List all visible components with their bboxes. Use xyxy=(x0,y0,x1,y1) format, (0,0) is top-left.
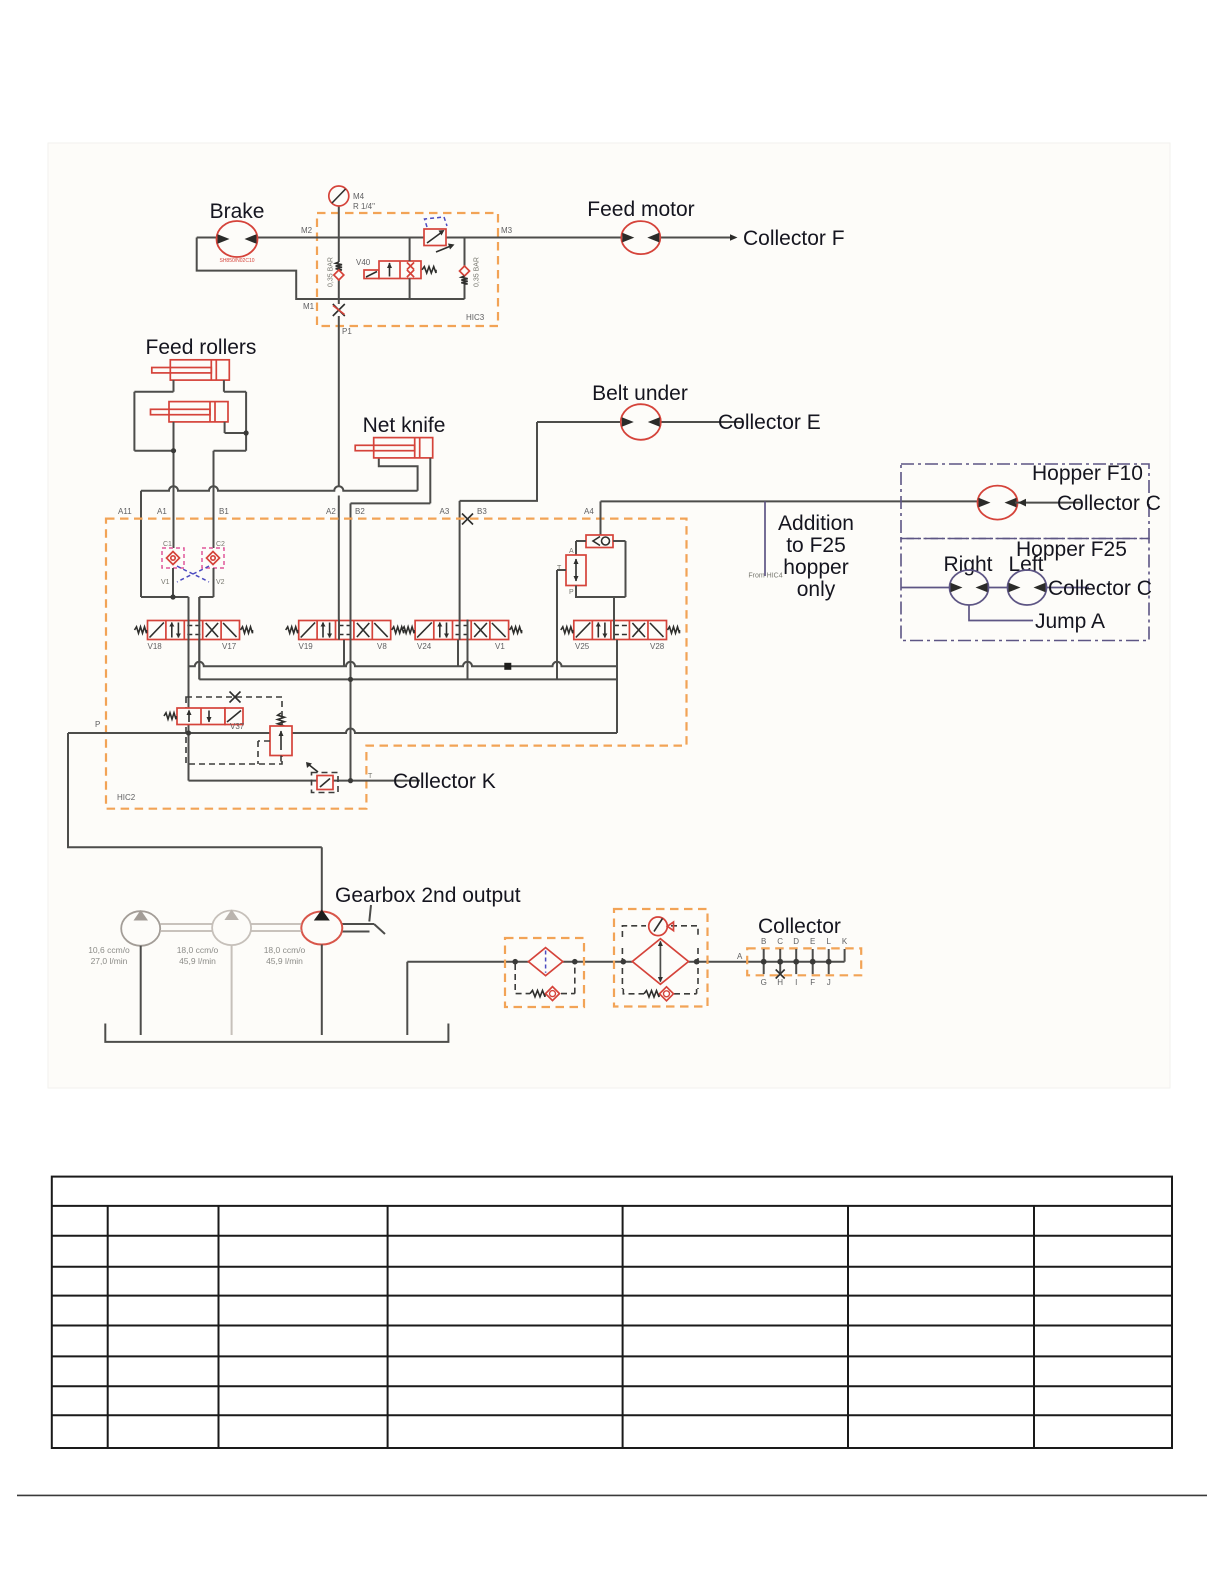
svg-text:10,6 ccm/o: 10,6 ccm/o xyxy=(88,945,130,955)
svg-text:V1: V1 xyxy=(495,642,505,651)
svg-text:V1: V1 xyxy=(161,579,170,586)
svg-text:I: I xyxy=(795,978,797,987)
svg-text:18,0 ccm/o: 18,0 ccm/o xyxy=(264,945,306,955)
svg-text:18,0 ccm/o: 18,0 ccm/o xyxy=(177,945,219,955)
svg-text:V8: V8 xyxy=(377,642,387,651)
svg-text:Collector: Collector xyxy=(758,915,841,938)
svg-text:Addition: Addition xyxy=(778,512,854,535)
svg-text:H: H xyxy=(777,978,783,987)
svg-text:V25: V25 xyxy=(575,642,590,651)
svg-text:to F25: to F25 xyxy=(786,534,846,557)
svg-text:V19: V19 xyxy=(299,642,314,651)
svg-text:45,9 l/min: 45,9 l/min xyxy=(179,956,216,966)
svg-text:A1: A1 xyxy=(157,507,167,516)
svg-text:V24: V24 xyxy=(417,642,432,651)
svg-text:P: P xyxy=(569,589,574,596)
svg-text:Feed rollers: Feed rollers xyxy=(146,336,257,359)
svg-text:C2: C2 xyxy=(216,541,225,548)
svg-text:V2: V2 xyxy=(216,579,225,586)
svg-text:V18: V18 xyxy=(148,642,163,651)
svg-text:T: T xyxy=(368,773,373,780)
svg-text:only: only xyxy=(797,578,836,601)
svg-text:HIC2: HIC2 xyxy=(117,793,136,802)
svg-text:Collector K: Collector K xyxy=(393,770,496,793)
svg-text:A: A xyxy=(737,952,743,961)
svg-text:A3: A3 xyxy=(440,507,450,516)
svg-text:45,9 l/min: 45,9 l/min xyxy=(266,956,303,966)
svg-text:C1: C1 xyxy=(163,541,172,548)
svg-text:hopper: hopper xyxy=(783,556,848,579)
svg-text:From HIC4: From HIC4 xyxy=(748,573,782,580)
svg-text:B: B xyxy=(761,937,766,946)
svg-text:Right: Right xyxy=(943,553,992,576)
svg-text:Belt under: Belt under xyxy=(592,382,688,405)
svg-text:Collector C: Collector C xyxy=(1057,492,1161,515)
svg-text:B3: B3 xyxy=(477,507,487,516)
svg-text:M2: M2 xyxy=(301,226,313,235)
svg-text:G: G xyxy=(761,978,767,987)
svg-text:M4: M4 xyxy=(353,192,365,201)
svg-text:Net knife: Net knife xyxy=(363,414,446,437)
svg-text:Gearbox 2nd output: Gearbox 2nd output xyxy=(335,884,521,907)
svg-text:Collector F: Collector F xyxy=(743,227,845,250)
svg-text:M3: M3 xyxy=(501,226,513,235)
svg-text:0,35 BAR: 0,35 BAR xyxy=(328,257,335,287)
svg-text:A11: A11 xyxy=(118,507,132,516)
svg-text:P: P xyxy=(95,720,100,729)
svg-text:P1: P1 xyxy=(342,327,352,336)
svg-text:Collector C: Collector C xyxy=(1048,577,1152,600)
svg-text:0,35 BAR: 0,35 BAR xyxy=(474,257,481,287)
svg-text:Jump A: Jump A xyxy=(1035,610,1105,633)
svg-text:M1: M1 xyxy=(303,302,315,311)
svg-text:27,0 l/min: 27,0 l/min xyxy=(91,956,128,966)
svg-text:V17: V17 xyxy=(222,642,237,651)
svg-text:Collector E: Collector E xyxy=(718,411,821,434)
svg-text:B1: B1 xyxy=(219,507,229,516)
svg-text:F: F xyxy=(810,978,815,987)
svg-text:B2: B2 xyxy=(355,507,365,516)
svg-text:Feed motor: Feed motor xyxy=(587,198,694,221)
svg-text:R 1/4": R 1/4" xyxy=(353,202,375,211)
svg-text:E: E xyxy=(810,937,815,946)
svg-text:A2: A2 xyxy=(326,507,336,516)
svg-text:K: K xyxy=(842,937,848,946)
svg-text:V28: V28 xyxy=(650,642,665,651)
svg-text:Hopper F10: Hopper F10 xyxy=(1032,462,1143,485)
svg-text:V37: V37 xyxy=(230,722,245,731)
svg-text:A4: A4 xyxy=(584,507,594,516)
svg-text:L: L xyxy=(826,937,831,946)
svg-text:SH850/N02C10: SH850/N02C10 xyxy=(219,258,254,264)
svg-text:HIC3: HIC3 xyxy=(466,313,485,322)
svg-text:A: A xyxy=(569,548,574,555)
svg-text:J: J xyxy=(827,978,831,987)
svg-text:V40: V40 xyxy=(356,258,371,267)
svg-text:C: C xyxy=(777,937,783,946)
svg-text:D: D xyxy=(793,937,799,946)
svg-text:Brake: Brake xyxy=(210,200,265,223)
